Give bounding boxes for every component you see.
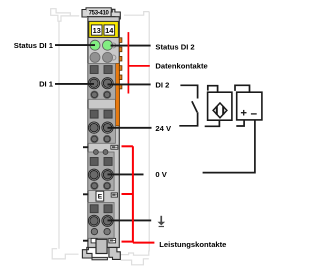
right foot <box>109 247 120 259</box>
switch blade <box>192 101 197 112</box>
left blade contact stub 3 <box>83 240 89 242</box>
module top-left hook <box>82 10 87 18</box>
earth symbol <box>158 216 166 227</box>
svg-text:DI 1: DI 1 <box>39 80 54 89</box>
box2 plus wire <box>236 120 244 126</box>
clamp slot 13 <box>90 66 98 74</box>
leader line DI 1 <box>55 83 94 85</box>
yellow marking area <box>89 21 119 37</box>
minus sign <box>251 113 257 115</box>
ghost right module top profile <box>124 12 149 16</box>
plus sign <box>241 110 247 116</box>
svg-text:E: E <box>98 194 103 201</box>
power jumper contact window (gap 3) <box>111 193 117 197</box>
terminal block 3 <box>88 152 114 191</box>
orange data-contact tabs <box>119 38 122 89</box>
module body <box>88 17 119 248</box>
wire entry DI1 (big circle left) <box>88 78 99 89</box>
small circle right of LED row 2 <box>111 55 116 60</box>
svg-text:Leistungskontakte: Leistungskontakte <box>159 240 226 249</box>
actuation opening 0V left <box>91 182 98 189</box>
clamp slot earth right <box>104 205 112 213</box>
LED status DI2 (green) <box>103 40 113 50</box>
bottom slot left <box>91 238 97 243</box>
power jumper contact window (bottom) <box>109 238 116 243</box>
clamp slot 0V left <box>90 158 98 166</box>
ghost outlines group <box>51 9 150 265</box>
wire entry DI2 (big circle right) <box>102 78 113 89</box>
actuation opening earth right <box>104 228 110 234</box>
grey LED row 2 right <box>103 52 113 62</box>
terminal block 1 <box>88 64 116 100</box>
red bracket Leistungskontakte <box>122 146 155 242</box>
leader line DI 2 <box>108 83 151 85</box>
clamp slot 24V right <box>104 110 112 118</box>
clamp slot 14 <box>104 66 112 74</box>
sensor box 2 (2-wire sensor) <box>237 92 262 120</box>
actuation opening right <box>103 91 110 98</box>
proximity symbol diamond <box>213 103 227 118</box>
actuation opening earth left <box>91 228 97 234</box>
ghost right foot lower line <box>121 259 149 265</box>
centre foot block <box>96 239 107 253</box>
leader line Status DI 1 <box>55 44 95 46</box>
left foot <box>82 247 92 258</box>
left blade contact stub 2 <box>83 193 89 195</box>
svg-text:Datenkontakte: Datenkontakte <box>155 62 207 71</box>
locking disc left <box>94 150 99 155</box>
wire entry 0V left <box>88 169 99 180</box>
DI2 wire to switch <box>180 85 197 98</box>
leader line earth <box>108 219 152 221</box>
locking disc right <box>103 150 108 155</box>
svg-text:753-410: 753-410 <box>89 11 110 17</box>
actuation opening 24V right <box>103 135 110 142</box>
orange data-contact strip <box>115 64 119 126</box>
svg-text:14: 14 <box>105 26 114 35</box>
clamp slot earth left <box>90 205 98 213</box>
E marking box <box>96 191 104 201</box>
leader line Status DI 2 <box>111 45 151 47</box>
terminal block 2 <box>88 109 116 143</box>
wire entry +24V left <box>88 122 99 133</box>
clamp slot 0V right <box>104 158 112 166</box>
svg-text:Status DI 2: Status DI 2 <box>155 42 194 51</box>
terminal number box 14 <box>104 25 115 35</box>
actuation opening 0V right <box>103 182 110 189</box>
ghost left vertical <box>58 21 60 249</box>
actuation opening left <box>91 91 98 98</box>
box1 top wire <box>208 86 218 93</box>
svg-text:24 V: 24 V <box>155 124 172 133</box>
leader line 0 V <box>108 173 144 175</box>
box2 top wire <box>235 85 250 92</box>
wire entry 24V right <box>102 122 113 133</box>
ghost left foot <box>52 249 78 259</box>
terminal number box 13 <box>91 25 102 35</box>
red bracket Datenkontakte <box>128 32 149 93</box>
bottom guide bar <box>92 257 107 259</box>
svg-text:13: 13 <box>93 26 101 35</box>
wire entry 0V right <box>102 169 113 180</box>
box1 bottom wire <box>205 120 220 126</box>
left blade contact stub 1 <box>83 146 89 148</box>
wire entry earth left <box>88 215 99 226</box>
LED status DI1 (green) <box>90 40 100 50</box>
switch bottom terminal <box>179 112 197 126</box>
ghost left module top profile <box>51 9 79 22</box>
box2 minus wire to 0V <box>203 120 255 173</box>
module: 753-410 label box <box>86 8 111 17</box>
module top-right hook <box>111 9 120 19</box>
leader line 24 V <box>108 127 152 129</box>
svg-text:Status DI 1: Status DI 1 <box>14 41 54 50</box>
external circuit wires <box>179 85 255 172</box>
ghost right vertical <box>148 12 150 252</box>
small circle right of LED row 1 <box>111 43 116 48</box>
clamp slot 24V left <box>90 110 98 118</box>
sensor box 1 (proximity switch) <box>208 92 232 120</box>
svg-text:0 V: 0 V <box>155 170 167 179</box>
terminal block 4 <box>88 203 114 239</box>
actuation opening 24V left <box>91 135 98 142</box>
power jumper contact window (gap 2) <box>111 145 118 149</box>
grey LED row 2 left <box>90 52 100 62</box>
svg-text:DI 2: DI 2 <box>155 81 169 90</box>
wire entry earth right <box>102 215 113 226</box>
ghost right foot profile <box>121 250 149 255</box>
